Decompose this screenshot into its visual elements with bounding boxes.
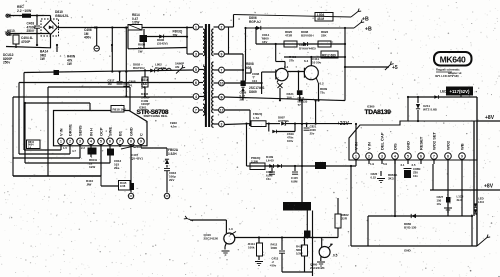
svg-text:3: 3 [221, 122, 223, 126]
svg-text:22R: 22R [342, 217, 348, 221]
svg-text:4700P: 4700P [21, 40, 31, 44]
svg-text:0.5: 0.5 [333, 254, 338, 258]
svg-text:27k: 27k [289, 59, 294, 63]
svg-text:3: 3 [381, 154, 383, 158]
svg-text:10 50v: 10 50v [312, 61, 322, 65]
svg-text:V IN: V IN [58, 128, 63, 136]
svg-text:DIS: DIS [392, 143, 397, 150]
svg-text:1A: 1A [28, 146, 31, 149]
svg-text:R818 1kS: R818 1kS [113, 108, 126, 112]
svg-text:4: 4 [195, 95, 197, 99]
svg-text:1W: 1W [40, 57, 45, 61]
svg-text:GND: GND [405, 141, 410, 150]
svg-text:0.2: 0.2 [320, 82, 325, 86]
svg-text:1: 1 [355, 154, 357, 158]
svg-text:39*1 LCD 39*9*180: 39*1 LCD 39*9*180 [435, 74, 459, 78]
svg-text:8: 8 [130, 140, 132, 144]
svg-text:IN H: IN H [88, 128, 93, 136]
svg-text:2: 2 [69, 140, 71, 144]
svg-text:100v: 100v [287, 139, 294, 143]
svg-text:u: u [475, 212, 477, 216]
svg-text:250V: 250V [27, 29, 35, 33]
svg-text:MK640: MK640 [440, 55, 466, 65]
svg-text:7: 7 [433, 154, 435, 158]
svg-text:1W: 1W [138, 50, 143, 54]
svg-text:9: 9 [221, 52, 223, 56]
svg-text:+B: +B [365, 27, 372, 33]
svg-text:B1: B1 [117, 130, 122, 136]
svg-text:C: C [138, 133, 143, 136]
svg-text:22K: 22K [321, 34, 327, 38]
svg-text:77: 77 [298, 103, 302, 107]
svg-text:WB: WB [459, 143, 464, 150]
svg-text:SINE: SINE [107, 127, 112, 136]
svg-text:72c: 72c [320, 91, 325, 95]
svg-text:TDA8139: TDA8139 [365, 109, 392, 116]
svg-text:6.4: 6.4 [304, 59, 309, 63]
svg-text:10v: 10v [413, 174, 418, 178]
svg-text:RESET: RESET [418, 136, 423, 150]
svg-text:6: 6 [420, 154, 422, 158]
svg-text:5: 5 [100, 140, 102, 144]
svg-text:WO2: WO2 [445, 140, 450, 150]
svg-text:2.1: 2.1 [401, 163, 405, 167]
svg-text:230: 230 [135, 145, 140, 149]
svg-text:6: 6 [195, 81, 197, 85]
svg-text:3: 3 [195, 52, 197, 56]
svg-text:GBU4J/L: GBU4J/L [55, 14, 69, 18]
svg-text:1kW: 1kW [89, 165, 95, 169]
svg-text:HVP59b: HVP59b [278, 119, 289, 123]
svg-text:16V: 16V [262, 40, 267, 44]
svg-text:DY6AY44E5: DY6AY44E5 [299, 47, 316, 51]
svg-text:7: 7 [221, 68, 223, 72]
svg-text:1.5JH: 1.5JH [168, 152, 177, 156]
svg-text:2SC2412K: 2SC2412K [310, 266, 326, 270]
svg-text:GND: GND [128, 127, 133, 136]
svg-text:1: 1 [60, 140, 62, 144]
svg-text:6.8M: 6.8M [291, 180, 298, 184]
svg-text:RU-42V: RU-42V [155, 66, 166, 70]
svg-text:104: 104 [252, 79, 257, 83]
svg-text:.8W: .8W [86, 183, 92, 187]
svg-text:WO2 SET: WO2 SET [431, 131, 436, 150]
svg-text:9: 9 [461, 154, 463, 158]
svg-text:4: 4 [90, 140, 92, 144]
svg-text:3: 3 [79, 140, 81, 144]
svg-text:9: 9 [140, 140, 142, 144]
svg-text:DRIVE: DRIVE [67, 124, 72, 136]
svg-text:1.5: 1.5 [63, 146, 67, 150]
svg-text:1: 1 [195, 25, 197, 29]
svg-text:0.4: 0.4 [284, 65, 289, 69]
svg-text:RGP-hJ: RGP-hJ [249, 20, 261, 24]
svg-text:1.3: 1.3 [229, 227, 234, 231]
svg-text:-kJm: -kJm [170, 124, 177, 128]
svg-text:10v: 10v [437, 202, 442, 206]
svg-text:250v: 250v [3, 61, 10, 65]
svg-text:+B: +B [362, 17, 369, 23]
svg-text:AN: AN [175, 65, 179, 69]
svg-text:R812 689: R812 689 [322, 54, 336, 58]
svg-text:104: 104 [287, 96, 292, 100]
svg-text:RGP10J: RGP10J [133, 66, 145, 70]
svg-text:D869: D869 [249, 90, 257, 94]
svg-text:7: 7 [119, 140, 121, 144]
svg-text:3K3: 3K3 [388, 177, 394, 181]
svg-text:2W: 2W [173, 33, 178, 37]
svg-text:2Ea: 2Ea [114, 166, 120, 170]
svg-text:3k.M: 3k.M [457, 198, 464, 202]
svg-text:L6-05: L6-05 [266, 159, 274, 163]
svg-text:SWITCHING REG.: SWITCHING REG. [144, 114, 169, 118]
svg-text:+117(52V): +117(52V) [450, 89, 471, 94]
svg-text:LD.0: LD.0 [478, 200, 485, 204]
svg-text:9.08: 9.08 [120, 184, 126, 188]
svg-text:1-L: 1-L [141, 86, 146, 90]
svg-text:(3142V): (3142V) [157, 42, 168, 46]
svg-text:+8V: +8V [485, 115, 495, 121]
svg-text:16v: 16v [266, 177, 271, 181]
svg-text:2: 2 [221, 25, 223, 29]
svg-text:45.M: 45.M [317, 17, 324, 21]
svg-text:50v: 50v [272, 263, 277, 267]
svg-text:+8V: +8V [484, 184, 494, 190]
svg-text:2.2: 2.2 [81, 146, 85, 150]
svg-text:1/2W: 1/2W [296, 251, 303, 255]
svg-text:12: 12 [220, 108, 224, 112]
svg-text:V IN: V IN [353, 142, 358, 150]
svg-text:BYD-130: BYD-130 [404, 226, 417, 230]
svg-text:SENS: SENS [77, 125, 82, 136]
svg-text:8: 8 [447, 154, 449, 158]
svg-text:+5: +5 [392, 65, 398, 71]
svg-text:2: 2 [368, 154, 370, 158]
svg-text:25v: 25v [310, 131, 315, 135]
svg-text:2.2W: 2.2W [251, 160, 258, 164]
svg-text:5: 5 [407, 154, 409, 158]
svg-text:2.2 ~10W: 2.2 ~10W [17, 9, 32, 13]
svg-text:4.7: 4.7 [72, 149, 76, 153]
svg-text:7: 7 [195, 108, 197, 112]
svg-text:+21V: +21V [337, 121, 349, 127]
svg-text:2SC2412K: 2SC2412K [204, 237, 220, 241]
svg-text:5.9: 5.9 [383, 162, 387, 166]
svg-text:6: 6 [109, 140, 111, 144]
svg-text:GND: GND [404, 249, 412, 253]
svg-text:OCP: OCP [98, 127, 103, 136]
svg-text:1.7A: 1.7A [253, 116, 260, 120]
svg-text:0.22: 0.22 [371, 175, 377, 179]
svg-text:1M: 1M [108, 82, 113, 86]
svg-text:10: 10 [220, 81, 224, 85]
svg-text:DEL CAP: DEL CAP [379, 132, 384, 150]
svg-text:5: 5 [195, 68, 197, 72]
svg-text:WTZ-5.6B: WTZ-5.6B [423, 108, 438, 112]
svg-text:adapter vk: adapter vk [448, 71, 462, 75]
svg-text:4: 4 [394, 154, 396, 158]
svg-text:100k: 100k [248, 246, 255, 250]
svg-text:1.9: 1.9 [370, 162, 374, 166]
svg-text:473R: 473R [285, 34, 293, 38]
svg-text:BSV055-/: BSV055-/ [301, 34, 314, 38]
